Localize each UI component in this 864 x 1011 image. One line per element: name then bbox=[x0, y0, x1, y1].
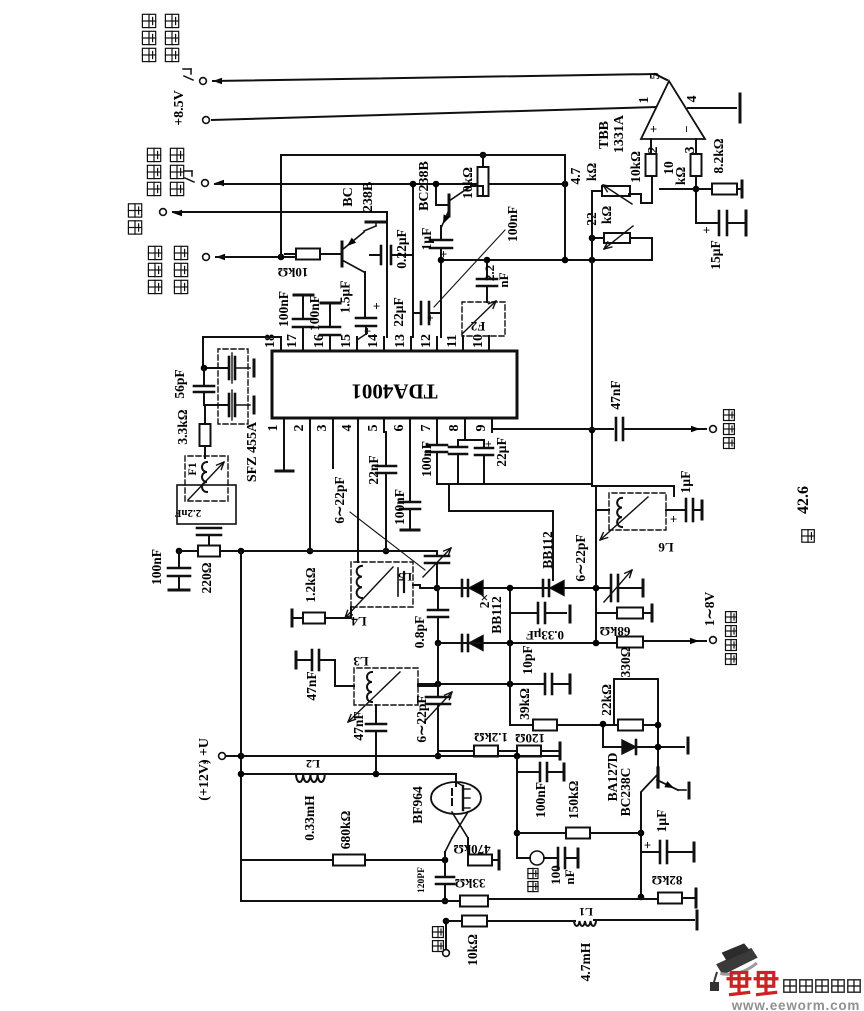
terminal low-freq (cjk) bbox=[128, 221, 141, 234]
watermark site name cjk bbox=[784, 980, 796, 992]
diode BA127D bbox=[602, 724, 604, 747]
resistor 150k bbox=[517, 832, 566, 834]
wire Q4 collector down bbox=[640, 793, 642, 898]
filter SFZ455A dashed box bbox=[218, 349, 248, 424]
resistor 10k input bbox=[446, 920, 462, 922]
wire time-constant bbox=[216, 256, 296, 258]
capacitor 100nF left bbox=[178, 551, 180, 568]
wire tuning voltage bbox=[643, 640, 706, 642]
pin 2 stub bbox=[309, 418, 311, 432]
resistor 220R bbox=[198, 546, 220, 557]
pin 4 stub bbox=[357, 418, 359, 432]
pin 12 stub bbox=[436, 337, 438, 351]
inductor L6 dashed box bbox=[609, 493, 666, 530]
capacitor 22nF pin5 bbox=[385, 432, 387, 466]
wire y551 bbox=[179, 550, 437, 552]
wire pin4 down to L5 bbox=[357, 432, 359, 562]
resistor 10k pin2 bbox=[650, 139, 652, 154]
resistor 3.3k bbox=[204, 405, 206, 424]
wire pin9 counter bbox=[491, 418, 493, 429]
capacitor 15uF bbox=[696, 222, 717, 224]
svg-text:www.eeworm.com: www.eeworm.com bbox=[731, 998, 860, 1011]
capacitor 10pF bbox=[418, 683, 543, 685]
pin 1 stub bbox=[283, 418, 285, 432]
pin 3 stub bbox=[332, 418, 334, 432]
ferrite bead row bbox=[516, 756, 518, 858]
gate crossing X bbox=[452, 812, 468, 838]
wire y588 tank bbox=[420, 587, 611, 589]
transistor Q2 BC238B bbox=[448, 195, 451, 216]
pin 16 stub bbox=[329, 337, 331, 351]
capacitor 0.22uF bbox=[380, 246, 383, 264]
IC U1 TDA4001 body bbox=[272, 351, 517, 418]
resistor 39k bbox=[509, 643, 511, 725]
pin 17 stub bbox=[302, 337, 304, 351]
resistor 1.2k bbox=[291, 610, 294, 626]
capacitor 0.8pF bbox=[437, 588, 439, 610]
wire L3 right bbox=[418, 685, 438, 687]
pin 6 stub bbox=[409, 418, 411, 432]
wire y511 branch bbox=[448, 484, 450, 511]
pin11 pin10 wires to F2 bbox=[462, 336, 464, 337]
wire right column x658 bbox=[657, 679, 659, 768]
wire to pin13 bbox=[412, 184, 414, 337]
capacitor 100nF Q3 drain bbox=[517, 771, 538, 773]
capacitor 1uF L6 bbox=[666, 509, 684, 511]
capacitor 47nF 2 bbox=[375, 705, 377, 724]
wire y643 bbox=[438, 642, 617, 644]
capacitor 100nF pin17 bbox=[302, 327, 304, 337]
wire +12V vertical bbox=[240, 551, 242, 901]
pin 5 stub bbox=[383, 418, 385, 432]
capacitor 100nF pin16 bbox=[329, 335, 331, 337]
pin 10 stub bbox=[488, 337, 490, 351]
inductor L2 0.33mH bbox=[296, 774, 325, 782]
transistor Q3 BF964 mosfet bbox=[431, 782, 481, 814]
capacitor 100nF pin6 bbox=[409, 432, 411, 502]
wire x592 to L6 bbox=[592, 485, 674, 487]
transistor Q1 BC 238B bbox=[341, 242, 344, 266]
capacitor 1.5uF pin15 bbox=[356, 317, 376, 320]
wire pin18 to filter bbox=[203, 336, 281, 338]
wire pin1 ground bbox=[283, 432, 285, 471]
pin 18 stub bbox=[280, 337, 282, 351]
wire Q2 base bbox=[435, 184, 437, 205]
varactor D1 BB112 bbox=[461, 580, 464, 596]
pin 14 stub bbox=[383, 337, 385, 351]
resistor 22k bbox=[618, 720, 643, 731]
watermark chongchong red bbox=[727, 973, 752, 995]
wire low-freq to pin14 bbox=[173, 211, 387, 213]
wire fine adj bbox=[215, 183, 565, 185]
transistor Q4 BC238C bbox=[656, 768, 659, 787]
wire +8.5V rail bbox=[212, 107, 656, 120]
ceramic filter element 1 bbox=[204, 367, 227, 369]
pin 9 stub bbox=[491, 418, 493, 432]
resistor 68k bbox=[595, 588, 597, 643]
wire pin3 short bbox=[332, 432, 334, 468]
resistor 680k bbox=[241, 859, 333, 861]
wire pin2 down bbox=[309, 432, 311, 551]
watermark logo cap bbox=[713, 941, 760, 977]
wire A top bbox=[281, 154, 565, 156]
resistor 330R bbox=[617, 637, 643, 648]
capacitor in box bbox=[197, 527, 221, 530]
box under F1 bbox=[177, 485, 236, 524]
wire coarse rail bbox=[213, 74, 655, 81]
capacitor 2.2nF F2 bbox=[486, 260, 488, 279]
vertical x592 bbox=[591, 191, 593, 486]
figure label 42.6 bbox=[802, 530, 815, 543]
ceramic filter element 2 bbox=[204, 404, 227, 406]
wire pin12 down bbox=[440, 260, 442, 337]
wire +12V rail y756 bbox=[241, 755, 560, 757]
capacitor 100nF pin7 bbox=[436, 432, 438, 445]
wire bus y484 bbox=[437, 483, 592, 485]
capacitor 22uF pin8 bbox=[464, 432, 466, 440]
inductor box L4/L5 dashed bbox=[351, 562, 413, 607]
filter F1 dashed box bbox=[204, 446, 206, 458]
terminal time-constant-switch (cjk) bbox=[148, 280, 161, 293]
wire rail y774 bbox=[241, 773, 454, 775]
junction dots extra bbox=[480, 152, 487, 159]
resistor 10k Q2 collector bbox=[482, 155, 484, 167]
filter F2 dashed box bbox=[462, 302, 505, 336]
inductor L1 4.7mH bbox=[574, 921, 596, 926]
terminal stop-pulse-fine (cjk) bbox=[147, 182, 160, 195]
input terminal bbox=[433, 941, 444, 952]
terminal stop-pulse-coarse (cjk) bbox=[142, 48, 155, 61]
capacitor 1uF pin12 bbox=[440, 226, 442, 240]
coil L4 bbox=[357, 566, 362, 598]
resistor 10k pin3 bbox=[695, 139, 697, 154]
capacitor 22uF pin13 bbox=[413, 312, 420, 314]
pin 7 stub bbox=[436, 418, 438, 432]
trimmer L5 bbox=[397, 568, 399, 596]
pin 8 stub bbox=[464, 418, 466, 432]
inductor box L3 dashed bbox=[354, 668, 418, 705]
wire long y260 bbox=[441, 259, 652, 261]
ground Q1 collector bbox=[366, 221, 386, 224]
terminal counter (cjk) bbox=[724, 438, 735, 449]
op-amp U2 TBB1331A bbox=[641, 81, 705, 139]
capacitor 1uF Q4 bbox=[641, 851, 658, 853]
capacitor 56pF bbox=[202, 361, 204, 368]
resistor 10k base Q1 bbox=[296, 249, 320, 260]
varactor D2 BB112 bbox=[461, 635, 464, 651]
wire pin3 node bbox=[695, 176, 697, 223]
capacitor 0.33uF bbox=[509, 588, 511, 643]
wire pin4 to ground bbox=[688, 107, 736, 109]
pin 15 stub bbox=[356, 337, 358, 351]
capacitor 47nF 1 bbox=[295, 652, 298, 668]
pin 11 stub bbox=[462, 337, 464, 351]
varactor D3 BB112 bbox=[542, 580, 545, 596]
resistor 8.2k bbox=[712, 184, 737, 195]
tbar after trimmer3 bbox=[642, 580, 645, 596]
pin 13 stub bbox=[410, 337, 412, 351]
